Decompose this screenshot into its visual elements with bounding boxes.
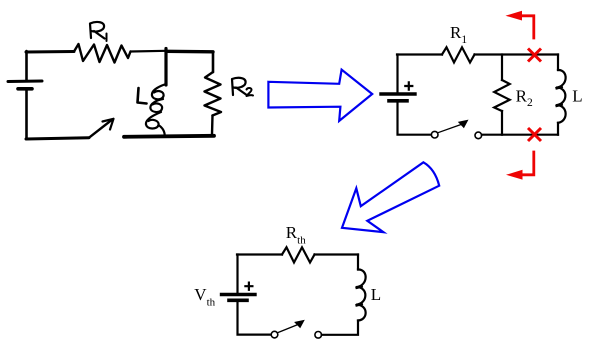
red arrow bottom (down then left) <box>521 151 534 175</box>
wire: top horizontal Rth to L corner <box>315 253 359 255</box>
wire: left vertical (battery bottom lead) <box>25 90 28 140</box>
wire: R2 bottom lead <box>501 111 503 135</box>
inductor L1 hand loops <box>146 84 166 136</box>
red X top <box>528 49 541 62</box>
wire: R2 top lead vertical <box>212 52 215 72</box>
wire: L top lead vertical <box>557 55 559 71</box>
resistor R2 zigzag vertical <box>205 72 222 116</box>
red arrow top (up then left) <box>521 16 534 40</box>
battery Vth long plate <box>222 293 256 296</box>
wire: top horizontal left of R1 <box>397 53 442 55</box>
battery + sign <box>405 82 412 89</box>
resistor R2 zigzag vertical <box>494 80 510 111</box>
wire: R2 bottom lead <box>211 116 214 135</box>
wire: top horizontal junction to R2 corner <box>166 50 213 54</box>
wire: left vertical battery top lead <box>396 55 398 93</box>
battery + sign <box>245 283 252 290</box>
wire: left vertical (battery top lead) <box>25 51 28 81</box>
wire: top horizontal left of Rth <box>237 253 282 255</box>
switch blade arrow <box>89 121 111 138</box>
switch blade with arrowhead <box>438 124 461 132</box>
switch throw circle <box>475 132 482 139</box>
wire: left vertical battery bottom lead <box>238 302 272 335</box>
wire: L bottom lead vertical <box>557 123 559 135</box>
inductor L joint curls <box>557 87 562 106</box>
switch pole circle <box>431 131 438 138</box>
wire: R2 top lead <box>501 55 503 81</box>
wire: L top lead vertical <box>357 255 359 270</box>
inductor L coil <box>556 70 566 123</box>
battery B2 short plate <box>389 99 407 103</box>
svg-text:L: L <box>371 285 381 304</box>
inductor L coil <box>356 269 366 320</box>
red arrowhead bottom <box>506 170 523 180</box>
red X bottom <box>528 128 541 141</box>
red arrowhead top <box>506 11 523 21</box>
wire: left vertical battery bottom lead <box>398 103 432 135</box>
wire: middle branch vertical down to inductor <box>164 49 167 86</box>
switch pole circle <box>271 331 278 338</box>
wire: bottom horizontal to L corner <box>322 321 358 335</box>
resistor R1 zigzag <box>74 44 131 63</box>
wire: bottom thick horizontal <box>124 136 214 137</box>
wire: bottom-left horizontal to switch <box>26 138 89 139</box>
wire: top-left horizontal from battery top corner to R1 <box>26 50 74 54</box>
label R2 (hand) <box>232 78 246 95</box>
resistor R1 zigzag <box>442 47 475 62</box>
red annotations <box>521 16 542 175</box>
svg-text:L: L <box>572 86 582 105</box>
battery Vth short plate <box>229 298 247 302</box>
label L (hand) <box>138 88 147 104</box>
switch throw circle <box>315 332 322 339</box>
wire: left vertical battery top lead <box>236 255 238 293</box>
block arrow down-left <box>342 162 439 232</box>
wire: top horizontal R1 to L corner <box>475 53 559 55</box>
wire: bottom horizontal to L corner <box>482 134 558 136</box>
inductor L joint curls <box>357 286 362 305</box>
resistor Rth zigzag <box>282 247 315 262</box>
wire: top middle horizontal R1 to junction <box>131 50 167 53</box>
battery B1 long plate <box>8 80 42 84</box>
block arrow right <box>268 70 372 121</box>
switch blade with arrowhead <box>278 325 298 333</box>
battery B1 short plate <box>18 87 32 91</box>
label R1 (hand) <box>90 22 105 39</box>
battery B2 long plate <box>381 92 415 95</box>
